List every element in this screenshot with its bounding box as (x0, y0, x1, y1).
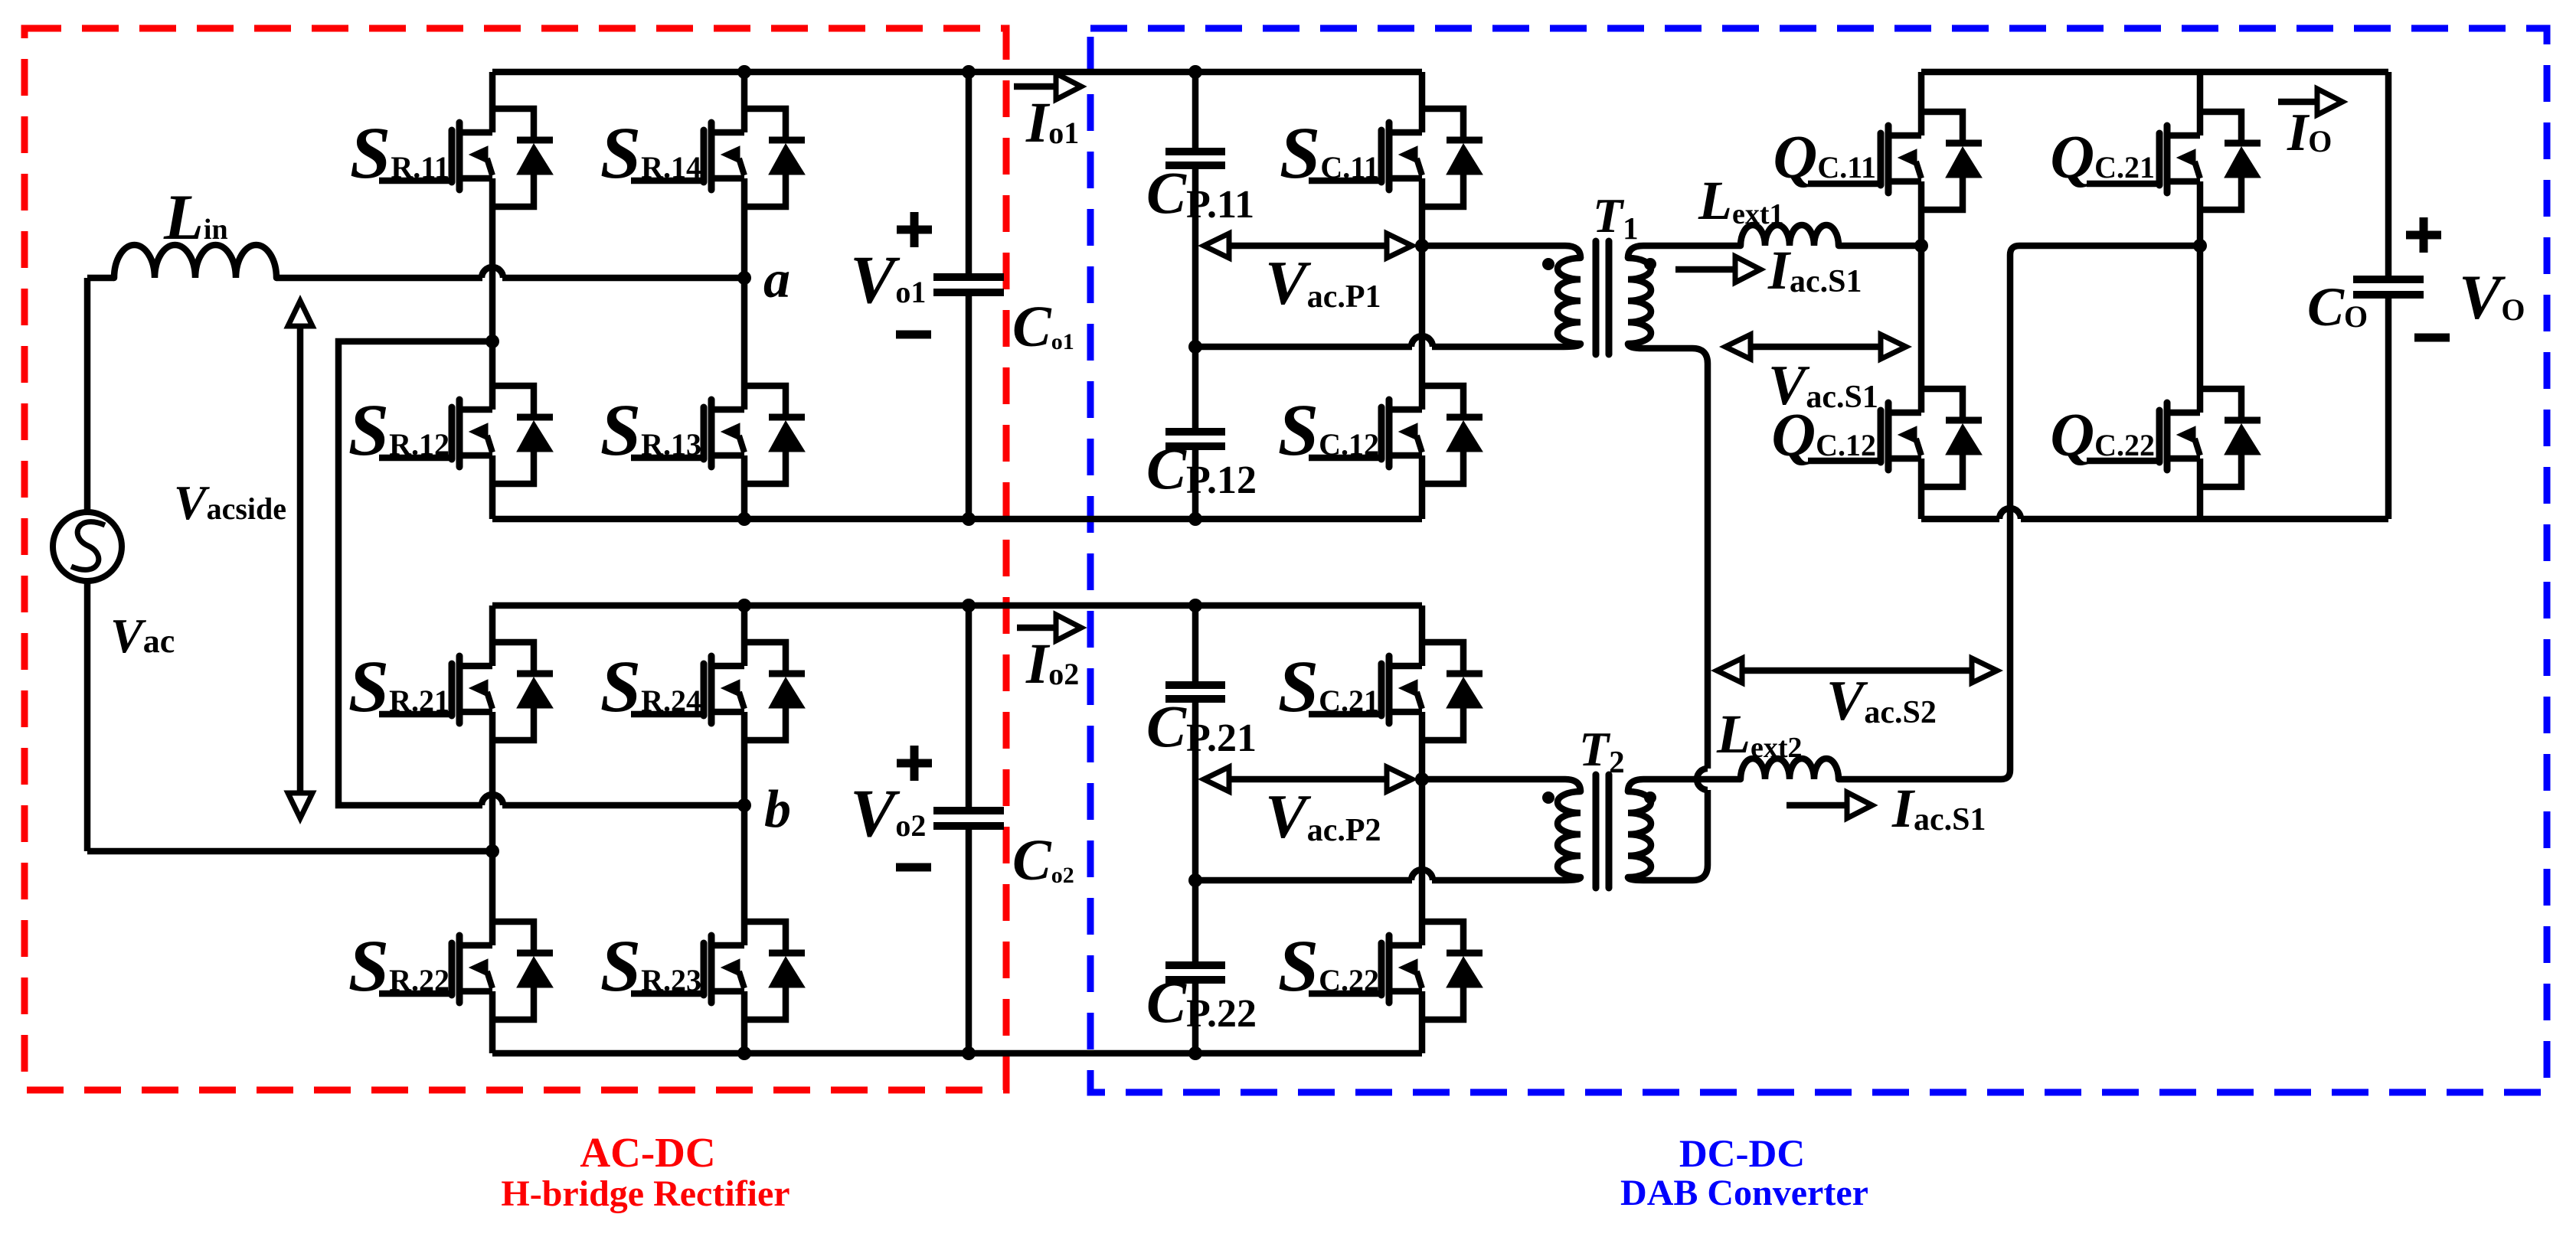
svg-text:AC-DC: AC-DC (580, 1129, 715, 1176)
svg-text:DAB Converter: DAB Converter (1620, 1173, 1868, 1213)
svg-text:H-bridge Rectifier: H-bridge Rectifier (501, 1173, 789, 1214)
svg-text:DC-DC: DC-DC (1679, 1133, 1805, 1176)
svg-text:b: b (764, 780, 791, 839)
svg-text:a: a (763, 250, 790, 309)
